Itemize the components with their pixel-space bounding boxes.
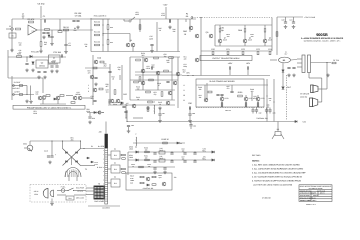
resistor R44b bbox=[107, 40, 109, 45]
wire bbox=[264, 32, 266, 39]
ground bbox=[153, 171, 157, 174]
bridge diode D2 bbox=[76, 152, 78, 154]
transistor Q24 bbox=[141, 81, 145, 85]
capacitor C91 bbox=[170, 153, 173, 154]
regulator U11 bbox=[159, 159, 165, 162]
wire bbox=[297, 58, 302, 60]
capacitor C90 bbox=[153, 153, 156, 154]
svg-text:SW1 PWR: SW1 PWR bbox=[76, 187, 85, 190]
wire bbox=[318, 101, 322, 103]
wire bbox=[244, 32, 246, 39]
capacitor C95 bbox=[153, 161, 156, 162]
resistor R31 bbox=[60, 95, 64, 97]
wire bbox=[131, 17, 135, 20]
resistor R27 bbox=[19, 85, 23, 87]
transistor Q5 bbox=[195, 34, 199, 38]
capacitor C36 bbox=[88, 117, 91, 118]
resistor R70 bbox=[212, 51, 214, 55]
op-amp U2 NE5532 bbox=[36, 60, 48, 68]
resistor R1 bbox=[16, 28, 21, 30]
diode CR40 bbox=[87, 157, 89, 159]
wire collector rail bbox=[215, 24, 272, 26]
node bbox=[187, 75, 188, 76]
svg-text:47u: 47u bbox=[91, 97, 94, 100]
wire bbox=[282, 63, 284, 86]
wire +75V rail bbox=[277, 16, 303, 18]
svg-text:C6 47p: C6 47p bbox=[37, 3, 45, 6]
svg-text:12: 12 bbox=[102, 196, 104, 198]
wire bbox=[57, 190, 61, 192]
wire bbox=[257, 101, 259, 108]
resistor R150 bbox=[163, 142, 168, 144]
svg-text:OUTPUT TRANSISTOR ARRAY: OUTPUT TRANSISTOR ARRAY bbox=[212, 57, 240, 60]
wire bbox=[40, 46, 42, 50]
svg-text:NOTES:: NOTES: bbox=[252, 160, 260, 163]
wire bbox=[119, 75, 121, 80]
transistor Q8 output bbox=[243, 39, 247, 43]
svg-text:THERMAL SW: THERMAL SW bbox=[256, 117, 268, 120]
svg-text:2K2: 2K2 bbox=[141, 54, 144, 57]
capacitor C86 bbox=[127, 125, 130, 126]
wire bbox=[51, 199, 53, 203]
resistor R34 bbox=[100, 61, 104, 63]
wire bbox=[81, 165, 96, 167]
capacitor C1 bbox=[44, 19, 45, 22]
ground bbox=[29, 100, 33, 103]
wire bbox=[159, 116, 161, 120]
node bbox=[126, 121, 127, 122]
resistor R176 bbox=[245, 103, 247, 107]
wire bbox=[247, 70, 249, 76]
wire bbox=[130, 56, 180, 58]
svg-text:HF DRIVER: HF DRIVER bbox=[300, 93, 310, 96]
svg-text:4K7: 4K7 bbox=[105, 85, 108, 88]
wire section border left bbox=[90, 18, 92, 52]
node bbox=[102, 34, 103, 35]
diode CR41 bbox=[91, 161, 93, 163]
wire bbox=[12, 85, 27, 87]
transistor Q10 bbox=[38, 96, 42, 100]
strip pin numbers bbox=[102, 150, 104, 202]
wire bbox=[37, 29, 60, 31]
svg-text:13: 13 bbox=[102, 200, 104, 202]
svg-text:400W 8Ω: 400W 8Ω bbox=[300, 96, 308, 99]
wire bbox=[81, 148, 105, 150]
wire bbox=[276, 17, 278, 55]
wire bbox=[11, 19, 13, 50]
resistor R28 bbox=[19, 94, 23, 96]
transistor Q11 bbox=[42, 96, 46, 100]
resistor R41 ladder bbox=[95, 34, 100, 36]
capacitor C26 bbox=[50, 66, 53, 67]
transistor Q6 bbox=[209, 34, 213, 38]
transistor Q28 bbox=[132, 104, 136, 108]
diode CR36 bbox=[147, 184, 149, 186]
diode CR22 bbox=[295, 120, 297, 122]
wire bbox=[74, 190, 87, 192]
resistor R125 bbox=[164, 70, 169, 72]
transformer T1 toroid bbox=[65, 168, 81, 178]
wire bbox=[177, 57, 179, 108]
svg-text:104: 104 bbox=[68, 44, 71, 47]
wire bbox=[219, 25, 221, 27]
svg-text:AC IN: AC IN bbox=[34, 190, 39, 193]
wire bbox=[321, 78, 323, 83]
transformer T2 windings bbox=[94, 186, 104, 199]
wire bbox=[30, 86, 32, 101]
ground bbox=[43, 76, 47, 79]
fuse F3 bbox=[332, 62, 336, 64]
transistor Q29 bbox=[204, 98, 208, 102]
wire bbox=[185, 19, 187, 22]
op-amp U3 box bbox=[49, 55, 61, 63]
inductor T terminal bbox=[135, 137, 138, 146]
ground bbox=[76, 26, 80, 29]
transistor Q5b bbox=[195, 58, 199, 62]
wire bbox=[40, 6, 42, 18]
wire bbox=[130, 79, 178, 81]
wire bbox=[297, 62, 302, 64]
svg-text:4. DC VOLTAGES TAKEN WITH NO S: 4. DC VOLTAGES TAKEN WITH NO SIGNAL APPL… bbox=[252, 176, 303, 179]
svg-text:2K2: 2K2 bbox=[103, 65, 106, 68]
wire bbox=[24, 147, 27, 149]
wire bbox=[269, 108, 271, 110]
svg-text:C25 104: C25 104 bbox=[53, 51, 61, 54]
relay K2 box bbox=[111, 151, 120, 159]
capacitor C99 bbox=[193, 161, 196, 162]
svg-text:P1: P1 bbox=[91, 145, 93, 148]
capacitor C52 bbox=[166, 81, 169, 82]
ground bbox=[50, 42, 54, 45]
resistor R43b bbox=[107, 25, 109, 30]
capacitor C93 bbox=[183, 153, 186, 154]
box output array label bbox=[200, 56, 252, 61]
transistor Q4 bbox=[189, 26, 193, 30]
speaker LS2 bbox=[310, 98, 318, 107]
fan M1 bbox=[275, 132, 281, 136]
svg-text:R74: R74 bbox=[268, 48, 271, 51]
board label strip bbox=[13, 105, 85, 109]
wire bbox=[189, 108, 191, 114]
svg-text:2: 2 bbox=[88, 87, 89, 90]
capacitor C96 bbox=[170, 161, 173, 162]
wire bbox=[190, 122, 192, 125]
wire bbox=[231, 85, 233, 91]
ground bbox=[158, 119, 162, 122]
diode CR33 bbox=[212, 159, 214, 161]
resistor R122 bbox=[154, 57, 159, 59]
svg-text:RT1 22K: RT1 22K bbox=[31, 51, 40, 54]
capacitor C111 bbox=[47, 156, 50, 157]
wire bbox=[26, 86, 28, 95]
node bbox=[102, 112, 103, 113]
capacitor C12 bbox=[169, 19, 170, 22]
wire bbox=[270, 59, 277, 61]
node bbox=[171, 151, 172, 152]
wire bbox=[142, 57, 144, 90]
node bbox=[108, 101, 109, 102]
capacitor C40 bbox=[284, 22, 287, 23]
wire bbox=[65, 46, 67, 50]
resistor R123 bbox=[169, 57, 174, 59]
svg-text:J30: J30 bbox=[99, 131, 102, 134]
wire bbox=[189, 19, 191, 32]
transistor Q16 bbox=[93, 88, 97, 92]
capacitor C71 bbox=[292, 67, 295, 68]
wire bbox=[66, 95, 73, 97]
wire bbox=[157, 72, 159, 90]
ground bbox=[292, 74, 296, 77]
inductor L1 bbox=[153, 105, 156, 114]
capacitor C22 bbox=[37, 71, 40, 72]
transistor Q9 output bbox=[263, 39, 267, 43]
svg-text:LAST REF DES USED: R183 C111 Q: LAST REF DES USED: R183 C111 Q33 CR36 bbox=[253, 183, 292, 186]
capacitor C15 bbox=[150, 44, 153, 45]
ground bbox=[146, 107, 150, 110]
transistor Q7 output bbox=[218, 39, 222, 43]
wire bbox=[76, 177, 78, 181]
wire bbox=[135, 71, 172, 73]
svg-text:5. SWITCH SHOWN IN OFF POSITIO: 5. SWITCH SHOWN IN OFF POSITION VIEWED F… bbox=[252, 180, 301, 183]
svg-text:PREAMP BOARD ASSY 47-123-01 RE: PREAMP BOARD ASSY 47-123-01 REV B SHEET … bbox=[27, 106, 71, 109]
node bbox=[194, 151, 195, 152]
svg-text:R165: R165 bbox=[238, 91, 243, 94]
capacitor C100 bbox=[153, 168, 156, 169]
node bbox=[83, 148, 84, 149]
wire bbox=[48, 63, 58, 65]
resistor R44 bbox=[139, 25, 141, 30]
capacitor C70 bbox=[287, 67, 290, 68]
wire bbox=[105, 122, 107, 135]
wire bbox=[196, 84, 268, 86]
wire bbox=[86, 194, 94, 196]
node bbox=[102, 44, 103, 45]
wire bbox=[190, 126, 192, 129]
diode CR12 bbox=[54, 98, 56, 100]
transistor Q31 bbox=[244, 97, 248, 101]
box slave power amp bbox=[196, 79, 264, 107]
resistor R65 bbox=[244, 28, 246, 32]
wire bbox=[126, 110, 128, 122]
resistor R40 bbox=[114, 90, 116, 95]
wire bbox=[124, 20, 129, 22]
capacitor C60 bbox=[229, 66, 230, 69]
transistor Q25 bbox=[173, 81, 177, 85]
node bbox=[171, 159, 172, 160]
wire bbox=[109, 64, 111, 105]
resistor R183 bbox=[122, 172, 126, 174]
svg-text:1: 1 bbox=[88, 84, 89, 87]
resistor R10 bbox=[40, 42, 42, 47]
relay K1 coil bbox=[279, 57, 291, 63]
wire bbox=[133, 117, 143, 119]
transistor Q23 bbox=[176, 72, 180, 76]
wire bbox=[65, 30, 67, 44]
capacitor C66 bbox=[230, 91, 233, 92]
polarity marker diode CR21 bbox=[282, 87, 285, 90]
wire bbox=[125, 104, 127, 118]
jack J3 bbox=[13, 85, 15, 87]
wire bbox=[244, 43, 246, 46]
wire bbox=[139, 19, 141, 32]
wire bbox=[266, 79, 268, 122]
resistor R64 bbox=[219, 28, 221, 32]
connector circle P2 bbox=[129, 20, 131, 22]
speaker LS1 bbox=[311, 85, 319, 93]
capacitor bypass bbox=[251, 110, 254, 111]
wire bbox=[165, 7, 167, 19]
wire bbox=[108, 182, 111, 184]
svg-text:C9 104: C9 104 bbox=[75, 15, 82, 18]
diode CR32 bbox=[212, 151, 214, 153]
wire bbox=[321, 83, 323, 102]
op-amp U1A bbox=[28, 25, 37, 35]
resistor R160 bbox=[145, 151, 150, 153]
wire bbox=[8, 56, 66, 58]
capacitor C3 bbox=[46, 32, 49, 33]
wire bbox=[308, 73, 310, 79]
wire bbox=[204, 85, 206, 98]
wire bbox=[108, 154, 111, 156]
wire bbox=[129, 34, 131, 43]
wire dashed section border bbox=[286, 75, 288, 120]
svg-text:+75V TO PWR: +75V TO PWR bbox=[304, 16, 316, 19]
capacitor C27 bbox=[55, 66, 58, 67]
wire bbox=[57, 194, 66, 196]
wire bbox=[264, 25, 266, 27]
node bbox=[102, 33, 103, 34]
box control board bbox=[126, 173, 172, 190]
svg-text:REF DWG: REF DWG bbox=[252, 154, 261, 157]
resistor R20 bbox=[17, 56, 22, 58]
transistor Q19 bbox=[98, 111, 101, 114]
capacitor C101 bbox=[163, 168, 166, 169]
ground bbox=[326, 74, 330, 77]
svg-text:CB1: CB1 bbox=[23, 143, 27, 146]
transistor Q42 bbox=[162, 182, 166, 186]
svg-text:10/25: 10/25 bbox=[149, 38, 153, 41]
IEC connector bbox=[43, 189, 48, 199]
wire bbox=[129, 57, 131, 100]
node bbox=[180, 143, 181, 144]
svg-text:11: 11 bbox=[102, 192, 104, 194]
wire bbox=[120, 168, 122, 170]
bridge diode D4 bbox=[76, 161, 78, 163]
regulator U10 bbox=[159, 151, 165, 154]
node bbox=[80, 140, 81, 141]
resistor R42 ladder bbox=[95, 44, 100, 46]
capacitor C31 bbox=[94, 77, 97, 78]
wire bbox=[86, 187, 94, 189]
wire bbox=[59, 19, 61, 30]
wire bbox=[40, 103, 66, 105]
capacitor C98 bbox=[183, 161, 186, 162]
wire bbox=[318, 88, 327, 90]
ground bbox=[50, 202, 54, 205]
svg-text:T2: T2 bbox=[98, 183, 100, 186]
wire emitter rail bbox=[215, 45, 272, 47]
wire bbox=[285, 17, 287, 22]
diode CR8 bbox=[30, 55, 32, 57]
wire bbox=[88, 205, 120, 207]
ground bbox=[25, 100, 29, 103]
wire bbox=[108, 168, 111, 170]
wire bbox=[229, 70, 231, 76]
resistor R163 bbox=[139, 166, 144, 168]
node bbox=[59, 29, 60, 30]
node bbox=[192, 75, 193, 76]
resistor R73 bbox=[257, 51, 259, 55]
wire bbox=[252, 112, 254, 114]
diode CR25 bbox=[177, 142, 179, 144]
wire bbox=[135, 89, 175, 91]
wire bbox=[42, 78, 44, 93]
diode CR31 bbox=[136, 159, 138, 161]
circuit breaker CB1 bbox=[27, 145, 33, 151]
svg-text:10p: 10p bbox=[164, 55, 167, 58]
ground bbox=[31, 69, 35, 72]
wire bbox=[156, 22, 158, 52]
svg-text:R73: R73 bbox=[256, 48, 259, 51]
wire bbox=[86, 190, 94, 192]
resistor R180 bbox=[122, 154, 126, 156]
transistor Q27 bbox=[166, 101, 170, 105]
wire bbox=[257, 95, 259, 97]
wire bbox=[87, 112, 104, 114]
wire bbox=[273, 79, 275, 122]
resistor R127 bbox=[149, 79, 154, 81]
resistor R175 bbox=[221, 103, 223, 107]
diode CR30 bbox=[136, 151, 138, 153]
node bbox=[51, 140, 52, 141]
wire bbox=[11, 76, 13, 100]
wire bbox=[169, 19, 171, 23]
wire bbox=[7, 50, 9, 78]
svg-text:4K7: 4K7 bbox=[44, 43, 47, 46]
bridge diode D1 bbox=[66, 152, 68, 154]
ground bbox=[50, 70, 54, 73]
resistor R134 bbox=[148, 101, 153, 103]
resistor R38 bbox=[99, 88, 103, 90]
transistor Q14 bbox=[94, 60, 98, 64]
capacitor C8 bbox=[72, 20, 75, 21]
resistor R30 bbox=[46, 95, 50, 97]
wire bbox=[107, 29, 109, 39]
svg-text:3. ALL VOLTAGES MEASURED TO CH: 3. ALL VOLTAGES MEASURED TO CHASSIS GROU… bbox=[252, 172, 306, 175]
resistor R2 feedback bbox=[29, 21, 34, 23]
capacitor C37 bbox=[124, 111, 127, 112]
fuse F1 bbox=[61, 189, 65, 193]
resistor R72 bbox=[242, 51, 244, 55]
svg-text:R72: R72 bbox=[241, 48, 244, 51]
wire bbox=[51, 30, 53, 36]
node bbox=[26, 94, 27, 95]
svg-text:+15V: +15V bbox=[163, 4, 168, 7]
capacitor C23 bbox=[43, 71, 46, 72]
wire bbox=[269, 112, 271, 114]
wire bbox=[251, 92, 253, 101]
wire bbox=[219, 43, 221, 46]
wire bbox=[85, 67, 110, 69]
varistor RV1 bbox=[66, 196, 74, 200]
ground bbox=[150, 49, 154, 52]
wire bbox=[133, 142, 185, 144]
wire bbox=[132, 47, 134, 52]
wire rail bbox=[91, 18, 196, 20]
diode CR14 bbox=[121, 102, 123, 104]
bridge diode D3 bbox=[66, 161, 68, 163]
wire bbox=[277, 122, 279, 132]
